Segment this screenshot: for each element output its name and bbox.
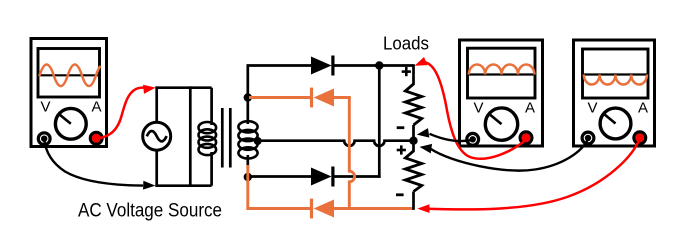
svg-text:V: V	[473, 100, 483, 117]
wire: orange bottom row from D4 to loads bottom	[333, 207, 414, 210]
wire: secondary top node up to top row	[246, 66, 249, 100]
wire: D2 cathode to corner	[333, 175, 381, 178]
meter M1 display	[38, 49, 100, 98]
diode D2 (black, pointing right)	[311, 167, 335, 187]
node: transformer center tap	[254, 137, 262, 145]
test lead: M1 red (A) to AC source top	[97, 87, 149, 138]
diode D4 (orange, pointing left)	[310, 199, 334, 219]
meter M3 (DC voltmeter across lower load)	[574, 40, 655, 146]
wire: orange bottom row to D4	[246, 207, 311, 210]
AC source loop: top wire	[155, 86, 211, 89]
meter M3 display zero line	[584, 73, 647, 75]
test lead: M3 red (A) to loads bottom (-)	[426, 139, 640, 210]
label: R1 plus	[402, 67, 411, 76]
wire: orange vertical from secondary bottom node down	[246, 165, 249, 210]
AC source loop: right vertical wire	[189, 86, 192, 187]
AC source loop: left wire above source	[155, 86, 158, 122]
transformer T1 secondary coil	[238, 121, 257, 158]
svg-text:V: V	[587, 100, 597, 117]
wire: R1 bottom lead	[412, 125, 415, 141]
svg-text:Loads: Loads	[383, 34, 429, 54]
transformer T1 primary coil	[199, 122, 217, 155]
svg-text:V: V	[40, 99, 50, 116]
wire: orange row from secondary top node to D3	[249, 96, 311, 99]
resistor R1 (upper load)	[405, 84, 422, 125]
meter M2 knob	[485, 108, 517, 140]
AC source loop: bottom wire	[155, 184, 211, 187]
meter M1 terminal A (red)	[90, 132, 102, 144]
wire: R2 bottom lead	[412, 192, 415, 210]
test lead: M1 black (V) to AC source bottom	[44, 139, 143, 186]
meter M1 case	[31, 39, 107, 147]
transformer T1 primary coil lead (top)	[210, 88, 213, 125]
meter M2 display	[468, 48, 536, 98]
svg-text:A: A	[638, 100, 648, 117]
label: R2 minus	[396, 193, 404, 196]
meter M3 display	[583, 49, 649, 98]
wire: orange vertical with hop over D2 row	[349, 96, 354, 210]
svg-text:A: A	[525, 100, 535, 117]
AC source loop: left wire below source	[155, 151, 158, 187]
meter M3 case	[574, 40, 655, 146]
node: loads center	[409, 137, 417, 145]
wire: center tap row with hops	[258, 141, 412, 146]
test lead: M2 red (A) to loads top (+)	[420, 62, 526, 159]
svg-text:AC Voltage Source: AC Voltage Source	[78, 200, 222, 221]
label: R2 plus	[397, 145, 406, 154]
wire: R2 top lead	[412, 141, 415, 152]
diode D1 (black, pointing right)	[311, 56, 335, 76]
meter M3 knob	[600, 108, 631, 139]
meter M1 display zero line	[40, 74, 99, 76]
wire: top row (cathode of D1 to loads)	[333, 64, 414, 67]
wire: D3 anode to corner	[333, 96, 351, 99]
meter M2 case	[460, 40, 543, 146]
meter M3 terminal A (red)	[634, 132, 646, 144]
diode D3 (orange, pointing left)	[310, 88, 334, 108]
meter M1 sine waveform	[40, 65, 100, 87]
meter M3 rectified waveform (humps down)	[584, 75, 647, 85]
transformer T1 primary coil lead (bottom)	[210, 152, 213, 186]
node: D1/D2 cathode junction	[375, 61, 383, 69]
meter M2 (DC voltmeter across upper load)	[460, 40, 543, 146]
transformer T1 core	[221, 108, 224, 168]
meter M1 knob	[55, 108, 86, 139]
meter M2 display zero line	[469, 73, 534, 75]
transformer T1 secondary coil lead (top)	[246, 96, 249, 124]
wire: loads top lead down	[412, 64, 415, 85]
meter M2 rectified waveform (humps up)	[469, 64, 535, 74]
AC voltage source V1 (circle with sine)	[143, 122, 171, 150]
test lead: M3 black (V) to loads center node	[431, 139, 589, 171]
wire: top row (anode side of D1)	[247, 64, 312, 67]
svg-text:A: A	[91, 99, 101, 116]
resistor R2 (lower load)	[405, 151, 422, 192]
meter M2 terminal A (red)	[520, 132, 532, 144]
label: R1 minus	[397, 126, 405, 129]
wire: D2 row (anode side)	[248, 175, 312, 178]
node: secondary bottom	[244, 173, 252, 181]
test lead: M2 black (V) to loads center node	[430, 134, 473, 141]
meter M1 (AC voltmeter, left)	[31, 39, 107, 147]
meter M2 terminal V (black)	[467, 133, 479, 145]
meter M1 terminal V (black)	[38, 133, 50, 145]
meter M3 terminal V (black)	[582, 132, 594, 144]
node: secondary top	[244, 93, 252, 101]
wire: vertical from cathode junction down to D2 row	[378, 66, 381, 178]
transformer T1 secondary coil lead (bottom)	[246, 155, 249, 168]
